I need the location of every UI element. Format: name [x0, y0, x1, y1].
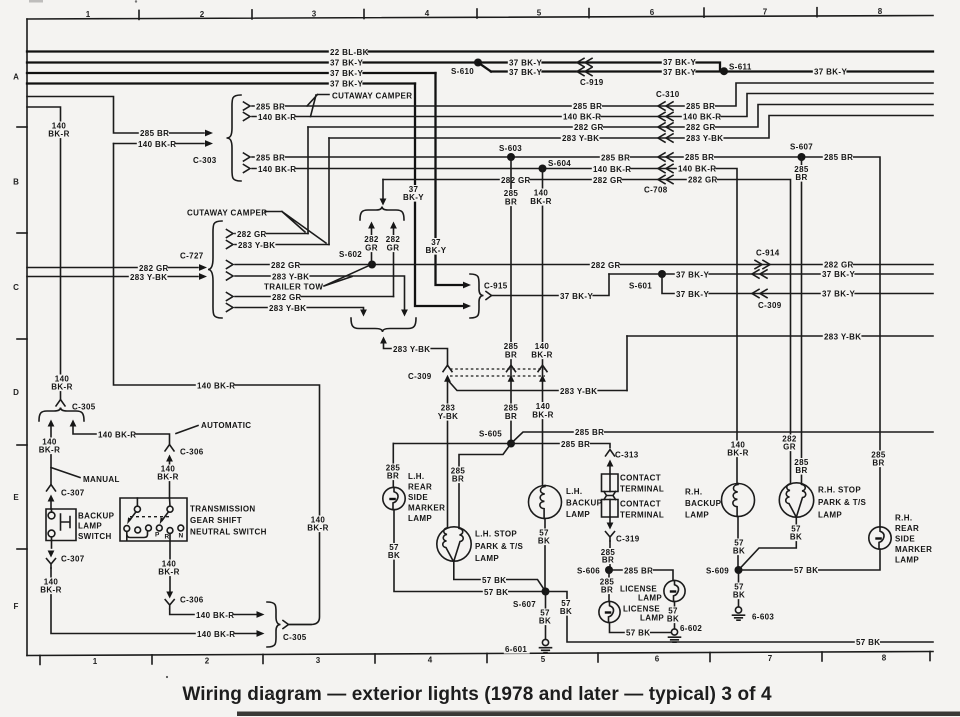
svg-text:37 BK-Y: 37 BK-Y: [822, 290, 855, 299]
svg-text:C-915: C-915: [484, 282, 508, 291]
svg-text:N: N: [179, 533, 184, 540]
wire 285 BR down to L.H. side marker: [392, 444, 394, 488]
wire 140 BK-R row to C-310 and right edge: [252, 94, 933, 117]
svg-text:C-309: C-309: [408, 372, 432, 381]
svg-text:282 GR: 282 GR: [593, 176, 623, 185]
svg-text:L.H.: L.H.: [566, 487, 583, 496]
svg-text:NEUTRAL SWITCH: NEUTRAL SWITCH: [190, 528, 267, 537]
svg-text:57 BK: 57 BK: [856, 638, 880, 647]
wire 285 BR row to C-310 and right edge: [252, 83, 933, 106]
connector C-305 chevron: [56, 400, 65, 406]
svg-text:MANUAL: MANUAL: [83, 475, 120, 484]
bottom ruler line: [27, 652, 933, 656]
svg-text:282 GR: 282 GR: [271, 261, 301, 270]
svg-text:BACKUP: BACKUP: [78, 512, 115, 521]
svg-text:3: 3: [316, 656, 321, 665]
svg-text:BK: BK: [388, 551, 400, 560]
connector C-306 lower chevron: [165, 600, 174, 609]
svg-text:AUTOMATIC: AUTOMATIC: [201, 421, 251, 430]
svg-text:BK: BK: [667, 615, 679, 624]
svg-text:C-708: C-708: [644, 186, 668, 195]
wire 140 BK-R row through S-604 to R.H. backup lamp: [252, 169, 737, 485]
svg-text:1: 1: [93, 657, 98, 666]
wire 283 Y-BK riser: [626, 336, 628, 391]
svg-text:BK-R: BK-R: [39, 446, 60, 455]
svg-text:B: B: [13, 178, 19, 187]
svg-text:CUTAWAY CAMPER: CUTAWAY CAMPER: [187, 209, 267, 218]
svg-text:BR: BR: [452, 475, 464, 484]
svg-text:285 BR: 285 BR: [575, 428, 604, 437]
connector C-313 chevron: [606, 450, 615, 456]
wire 282 GR C-727 row 1: [235, 233, 308, 235]
svg-text:C-727: C-727: [180, 252, 204, 261]
svg-text:C-305: C-305: [283, 633, 307, 642]
svg-text:MARKER: MARKER: [408, 504, 445, 513]
svg-text:GR: GR: [783, 443, 796, 452]
wire 285 BR from S-607 to R.H. stop lamp: [801, 157, 803, 484]
svg-text:283 Y-BK: 283 Y-BK: [269, 304, 306, 313]
switch TRANSMISSION GEAR SHIFT NEUTRAL SWITCH: [120, 498, 187, 541]
contact terminal upper: [602, 474, 619, 492]
arrow into 283 Y-BK brace: [380, 337, 387, 344]
svg-text:CONTACT: CONTACT: [620, 474, 661, 483]
svg-text:37 BK-Y: 37 BK-Y: [560, 292, 593, 301]
connector C-727 brace: [208, 221, 222, 318]
svg-text:TERMINAL: TERMINAL: [620, 511, 664, 520]
arrow into C-305 right: [70, 420, 77, 427]
wire 285 BR feed to C-303: [27, 97, 204, 134]
wire 285 BR row through S-603 and S-607: [252, 157, 880, 527]
svg-text:BK-Y: BK-Y: [403, 193, 424, 202]
svg-text:TRAILER TOW: TRAILER TOW: [264, 283, 323, 292]
svg-text:F: F: [14, 602, 19, 611]
svg-text:C-306: C-306: [180, 448, 204, 457]
svg-text:BR: BR: [505, 198, 517, 207]
wire 57 BK R.H. backup lamp to S-609: [737, 517, 739, 571]
connector C-309 chevron row upper: [752, 270, 767, 278]
svg-text:L.H. STOP: L.H. STOP: [475, 530, 517, 539]
wire 285 BR from S-605 to L.H. stop lamp: [459, 444, 511, 528]
svg-text:Wiring diagram — exterior ligh: Wiring diagram — exterior lights (1978 a…: [182, 684, 772, 705]
connector C-919 row 1: [577, 58, 592, 66]
splice S-610: [474, 59, 482, 67]
connector C-309 dashed body connector: [450, 368, 545, 370]
lamp R.H. REAR SIDE MARKER LAMP: [869, 527, 891, 549]
wire 140 BK-R long run to C-305 output: [114, 144, 320, 625]
wire 57 BK stop lamp to S-607: [454, 561, 546, 591]
svg-text:57 BK: 57 BK: [484, 588, 508, 597]
wire into contact terminal: [609, 465, 611, 474]
wire 140 BK-R automatic branch: [73, 426, 170, 444]
switch arms: [130, 512, 137, 521]
svg-text:285 BR: 285 BR: [140, 129, 169, 138]
svg-text:LAMP: LAMP: [818, 511, 842, 520]
svg-text:C-309: C-309: [758, 301, 782, 310]
svg-text:R.H.: R.H.: [895, 514, 912, 523]
wire 282 GR row to C-310 and right edge: [308, 105, 933, 128]
wire 283 Y-BK row to C-310 and right edge: [329, 116, 933, 139]
svg-text:BK: BK: [539, 617, 551, 626]
pointer CUTAWAY CAMPER lower: [265, 212, 326, 244]
connector C-915 output chevron: [486, 292, 492, 300]
svg-text:37 BK-Y: 37 BK-Y: [663, 58, 696, 67]
svg-text:6-601: 6-601: [505, 645, 527, 654]
svg-text:BK: BK: [538, 537, 550, 546]
connector C-319 chevron: [606, 532, 615, 541]
svg-text:REAR: REAR: [895, 524, 919, 533]
left border ticks: [17, 126, 27, 128]
svg-text:BK-R: BK-R: [48, 130, 69, 139]
svg-text:8: 8: [878, 7, 883, 16]
svg-text:283 Y-BK: 283 Y-BK: [686, 134, 723, 143]
svg-text:282 GR: 282 GR: [824, 260, 854, 269]
svg-text:BK: BK: [733, 547, 745, 556]
svg-text:PARK & T/S: PARK & T/S: [818, 498, 867, 507]
wire 282 GR stem into S-602 brace: [382, 180, 384, 200]
wire 57 BK R.H. side marker to S-609: [739, 549, 881, 570]
switch BACKUP LAMP SWITCH: [46, 509, 76, 541]
wire 283 Y-BK down to L.H. stop lamp: [447, 380, 449, 528]
svg-text:CONTACT: CONTACT: [620, 500, 661, 509]
svg-text:E: E: [13, 493, 19, 502]
wire 282 GR feed from border: [27, 267, 198, 269]
svg-text:285 BR: 285 BR: [256, 154, 285, 163]
connector C-307 upper chevron: [47, 485, 56, 491]
wire 283 Y-BK upper rear run: [627, 335, 933, 337]
svg-text:LAMP: LAMP: [566, 510, 590, 519]
svg-text:140 BK-R: 140 BK-R: [138, 140, 176, 149]
svg-text:285 BR: 285 BR: [561, 440, 590, 449]
svg-text:140 BK-R: 140 BK-R: [593, 165, 631, 174]
wire 37 BK-Y lower through C-919 and S-611: [491, 70, 933, 72]
wire 57 BK R.H. stop lamp to S-609: [739, 517, 797, 570]
svg-text:C-307: C-307: [61, 555, 85, 564]
svg-text:C-914: C-914: [756, 249, 780, 258]
splice S-606: [605, 566, 613, 574]
pointer MANUAL: [51, 468, 80, 478]
svg-text:BK-R: BK-R: [530, 197, 551, 206]
svg-text:3: 3: [312, 9, 317, 18]
connector C-915 brace: [470, 274, 484, 318]
pointer TRAILER TOW: [324, 266, 368, 286]
svg-text:REAR: REAR: [408, 483, 432, 492]
wire 285 BR from S-605 to right edge: [511, 432, 933, 444]
svg-text:37 BK-Y: 37 BK-Y: [663, 68, 696, 77]
scan artifact bottom band: [237, 712, 960, 717]
svg-text:TRANSMISSION: TRANSMISSION: [190, 505, 256, 514]
wire 282 GR branch S-602: [371, 227, 373, 265]
svg-text:A: A: [13, 73, 19, 82]
svg-text:1: 1: [86, 10, 91, 19]
svg-text:BR: BR: [505, 351, 517, 360]
connector C-919 row 2: [577, 67, 592, 75]
svg-text:140 BK-R: 140 BK-R: [98, 430, 136, 439]
svg-text:LAMP: LAMP: [895, 556, 919, 565]
wire 140 BK-R to C-307: [50, 426, 52, 484]
wire 37 BK-Y third bus: [27, 72, 436, 74]
svg-text:Y-BK: Y-BK: [438, 412, 459, 421]
svg-text:5: 5: [537, 9, 542, 18]
svg-text:282 GR: 282 GR: [688, 176, 718, 185]
arrow into C-305 left: [48, 420, 55, 427]
svg-text:S-603: S-603: [499, 144, 522, 153]
wire S-610 drop: [478, 63, 491, 72]
svg-text:GR: GR: [387, 244, 400, 253]
svg-text:CUTAWAY CAMPER: CUTAWAY CAMPER: [332, 92, 412, 101]
svg-text:C-305: C-305: [72, 403, 96, 412]
svg-text:8: 8: [882, 654, 887, 663]
connector C-305 lower brace: [267, 602, 281, 647]
svg-text:C-319: C-319: [616, 535, 640, 544]
svg-text:BR: BR: [601, 586, 613, 595]
svg-text:2: 2: [205, 657, 210, 666]
svg-text:37 BK-Y: 37 BK-Y: [814, 67, 847, 76]
wire 283 Y-BK riser from C-727 row 2: [328, 138, 330, 245]
svg-text:R: R: [165, 534, 170, 541]
svg-text:S-602: S-602: [339, 250, 362, 259]
svg-text:285 BR: 285 BR: [824, 153, 853, 162]
svg-text:285 BR: 285 BR: [686, 102, 715, 111]
svg-text:57 BK: 57 BK: [794, 566, 818, 575]
connector C-310 chevrons: [658, 102, 673, 110]
svg-text:BK-Y: BK-Y: [426, 246, 447, 255]
top ruler line: [27, 16, 933, 20]
svg-text:BK-R: BK-R: [531, 351, 552, 360]
svg-text:140 BK-R: 140 BK-R: [258, 165, 296, 174]
svg-text:R.H. STOP: R.H. STOP: [818, 486, 861, 495]
wire 283 Y-BK feed from border: [27, 276, 198, 278]
wire 285 BR from S-603 down to S-605: [510, 157, 512, 444]
switch contacts: [124, 526, 130, 532]
wire out of backup lamp switch: [51, 541, 53, 549]
svg-text:BK-R: BK-R: [532, 411, 553, 420]
svg-text:BK-R: BK-R: [40, 586, 61, 595]
wire C-305 output: [289, 624, 312, 626]
contact terminal lower: [604, 496, 616, 500]
wire 285 BR from C-319 to S-606: [609, 541, 611, 570]
svg-text:22 BL-BK: 22 BL-BK: [330, 48, 369, 57]
svg-text:P: P: [155, 532, 160, 539]
connector C-303 brace: [227, 95, 242, 181]
wire 57 BK from S-607 to ground G-601: [545, 592, 547, 640]
svg-text:PARK & T/S: PARK & T/S: [475, 542, 524, 551]
svg-text:S-609: S-609: [706, 566, 729, 575]
svg-text:C-307: C-307: [61, 489, 85, 498]
svg-text:4: 4: [425, 9, 430, 18]
wire 282 GR riser from C-727 row 1: [307, 127, 309, 234]
connector C-708 chevrons: [658, 153, 673, 161]
svg-text:BACKUP: BACKUP: [685, 499, 722, 508]
svg-text:S-611: S-611: [729, 63, 752, 72]
svg-text:L.H.: L.H.: [408, 472, 425, 481]
splice S-602: [368, 261, 376, 269]
svg-text:MARKER: MARKER: [895, 545, 932, 554]
scan specks: [166, 676, 168, 678]
svg-text:140 BK-R: 140 BK-R: [196, 611, 234, 620]
wire 140 BK-R to C-305 lower brace: [51, 568, 256, 634]
wire 57 BK right license lamp to ground: [674, 602, 676, 629]
svg-text:C-313: C-313: [615, 451, 639, 460]
splice S-602 gathering brace: [360, 207, 404, 221]
ground G-601: [542, 639, 548, 645]
svg-text:37 BK-Y: 37 BK-Y: [330, 58, 363, 67]
connector C-727 row chevrons: [227, 230, 234, 238]
lamp R.H. STOP PARK and T/S LAMP: [779, 483, 813, 517]
lamp LICENSE LAMP left: [599, 601, 620, 622]
splice S-604: [539, 165, 547, 173]
svg-text:57 BK: 57 BK: [626, 629, 650, 638]
svg-text:C-919: C-919: [580, 78, 604, 87]
pointer AUTOMATIC: [176, 426, 198, 434]
svg-text:BK-R: BK-R: [157, 473, 178, 482]
connector C-305 output chevron: [283, 621, 289, 629]
wire below contact terminal: [609, 517, 611, 523]
ground G-603: [735, 607, 741, 613]
svg-text:C-306: C-306: [180, 596, 204, 605]
top ruler ticks: [138, 10, 140, 19]
border frame left edge: [26, 19, 28, 656]
svg-text:S-610: S-610: [451, 67, 474, 76]
splice S-605: [507, 440, 515, 448]
svg-text:BK-R: BK-R: [727, 449, 748, 458]
pointer CUTAWAY CAMPER upper: [307, 95, 329, 117]
wire 37 BK-Y bus upper: [27, 63, 724, 72]
svg-text:37 BK-Y: 37 BK-Y: [822, 270, 855, 279]
svg-text:SIDE: SIDE: [895, 535, 915, 544]
svg-text:140 BK-R: 140 BK-R: [683, 113, 721, 122]
svg-text:S-606: S-606: [577, 566, 600, 575]
svg-text:BK: BK: [733, 591, 745, 600]
svg-text:140 BK-R: 140 BK-R: [197, 630, 235, 639]
wire 283 Y-BK from C-309 to riser: [449, 382, 627, 391]
svg-text:6-602: 6-602: [680, 624, 702, 633]
wire 37 BK-Y from C-915 to S-601: [492, 274, 610, 296]
svg-text:BR: BR: [795, 173, 807, 182]
wire 37 BK-Y drop to C-915 upper: [436, 73, 463, 285]
svg-text:BR: BR: [602, 556, 614, 565]
svg-text:LAMP: LAMP: [638, 594, 662, 603]
svg-text:37 BK-Y: 37 BK-Y: [676, 290, 709, 299]
svg-text:282 GR: 282 GR: [591, 261, 621, 270]
svg-text:283 Y-BK: 283 Y-BK: [272, 272, 309, 281]
svg-text:282 GR: 282 GR: [501, 176, 531, 185]
wire into backup lamp switch: [50, 500, 52, 509]
bottom ruler ticks: [39, 655, 41, 664]
svg-text:SIDE: SIDE: [408, 493, 428, 502]
svg-text:LICENSE: LICENSE: [623, 605, 660, 614]
svg-text:LICENSE: LICENSE: [620, 585, 657, 594]
svg-text:S-605: S-605: [479, 430, 502, 439]
wire 37 BK-Y lower from S-601: [662, 274, 933, 294]
svg-text:LAMP: LAMP: [475, 554, 499, 563]
svg-text:282 GR: 282 GR: [272, 293, 302, 302]
svg-text:S-607: S-607: [513, 600, 536, 609]
wire 57 BK bottom bus to right edge: [546, 592, 934, 643]
wire 140 BK-R into transmission switch: [169, 460, 171, 498]
svg-text:6-603: 6-603: [752, 613, 774, 622]
wire 140 BK-R feed down to C-305: [27, 107, 61, 399]
wire 283 Y-BK from brace to C-309: [384, 343, 448, 367]
splice S-607: [798, 153, 806, 161]
svg-text:140 BK-R: 140 BK-R: [197, 382, 235, 391]
svg-text:C: C: [13, 283, 19, 292]
svg-text:4: 4: [428, 656, 433, 665]
svg-text:LAMP: LAMP: [685, 511, 709, 520]
lamp L.H. STOP PARK and T/S LAMP: [437, 527, 471, 561]
svg-text:BK: BK: [790, 533, 802, 542]
wire 283 Y-BK C-727 row 4: [235, 276, 405, 313]
svg-text:37 BK-Y: 37 BK-Y: [509, 68, 542, 77]
wire 285 BR from S-606 to right license lamp: [609, 570, 673, 581]
wire 140 BK-R from S-604 down to L.H. backup lamp: [542, 169, 544, 486]
wire 282 GR C-727 row 5: [235, 296, 394, 298]
svg-text:140 BK-R: 140 BK-R: [563, 113, 601, 122]
wire 37 BK-Y fourth bus: [27, 82, 415, 84]
svg-text:R.H.: R.H.: [685, 488, 702, 497]
wire 57 BK side marker to S-607: [394, 510, 546, 592]
svg-text:6: 6: [655, 655, 660, 664]
splice S-611: [720, 67, 728, 75]
splice S-609: [735, 566, 743, 574]
wire 140 BK-R to C-305 lower brace: [170, 609, 256, 615]
lamp L.H. REAR SIDE MARKER LAMP: [383, 487, 405, 509]
svg-text:GR: GR: [365, 244, 378, 253]
svg-text:283 Y-BK: 283 Y-BK: [130, 273, 167, 282]
svg-text:BR: BR: [872, 459, 884, 468]
svg-text:2: 2: [200, 10, 205, 19]
wire 37 BK-Y drop to C-915 lower: [415, 84, 462, 307]
svg-text:BR: BR: [505, 412, 517, 421]
svg-text:140 BK-R: 140 BK-R: [258, 113, 296, 122]
svg-text:6: 6: [650, 8, 655, 17]
svg-text:5: 5: [541, 655, 546, 664]
svg-text:BR: BR: [795, 466, 807, 475]
splice S-601: [658, 270, 666, 278]
lamp R.H. BACKUP LAMP: [722, 484, 755, 517]
wire 140 BK-R out of transmission switch: [169, 541, 171, 591]
svg-text:282 GR: 282 GR: [237, 230, 267, 239]
svg-text:282 GR: 282 GR: [139, 264, 169, 273]
wire 283 Y-BK C-727 row 6: [235, 308, 364, 313]
svg-text:285 BR: 285 BR: [624, 566, 653, 575]
wire 283 Y-BK C-727 row 2: [235, 244, 329, 246]
svg-text:D: D: [13, 388, 19, 397]
svg-text:LAMP: LAMP: [78, 522, 102, 531]
svg-text:BK-R: BK-R: [51, 383, 72, 392]
svg-text:BR: BR: [387, 472, 399, 481]
svg-text:SWITCH: SWITCH: [78, 532, 112, 541]
splice S-603: [507, 153, 515, 161]
wire 57 BK left license lamp to ground G-602: [610, 623, 672, 633]
connector C-307 lower chevron: [47, 559, 56, 568]
wire 57 BK backup lamp to S-607: [544, 519, 546, 592]
wire 57 BK from S-609 to ground G-603: [738, 570, 740, 607]
connector C-309 chevron row lower: [752, 289, 767, 297]
wire 282 GR long row through S-602 and C-914: [235, 264, 933, 266]
svg-text:282 GR: 282 GR: [574, 123, 604, 132]
svg-text:37 BK-Y: 37 BK-Y: [330, 79, 363, 88]
svg-text:140 BK-R: 140 BK-R: [678, 165, 716, 174]
svg-text:285 BR: 285 BR: [601, 154, 630, 163]
svg-text:C-303: C-303: [193, 156, 217, 165]
connector C-303 row chevrons: [244, 102, 251, 110]
svg-text:BK-R: BK-R: [158, 568, 179, 577]
svg-text:S-604: S-604: [548, 159, 571, 168]
wire 285 BR from S-606 to left license lamp: [608, 570, 610, 602]
wire 285 BR S-605 row to C-313: [393, 444, 610, 448]
connector C-914 chevrons: [755, 260, 770, 268]
svg-text:283 Y-BK: 283 Y-BK: [238, 241, 275, 250]
